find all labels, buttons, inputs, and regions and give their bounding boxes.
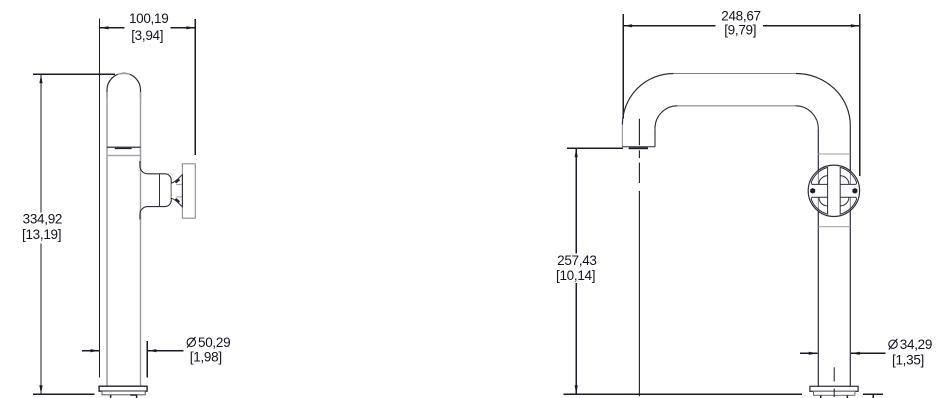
arrow dia34 right — [851, 352, 860, 355]
diameter symbol for 34,29 — [889, 340, 897, 348]
arch apex grey segment — [118, 73, 131, 75]
stem flare upper — [171, 175, 182, 184]
spout outer top — [674, 73, 797, 75]
svg-text:[10,14]: [10,14] — [556, 268, 595, 283]
spout inner top — [677, 105, 795, 107]
handwheel hole top-left — [811, 167, 827, 184]
arrow dia50 left — [91, 349, 100, 352]
handwheel hole top-right — [840, 167, 856, 184]
ext line left of 248,67 — [622, 14, 624, 118]
dim line 334,92 — [40, 74, 42, 394]
base flange tier 2 right view — [814, 391, 855, 395]
spout outlet dark opening — [115, 148, 132, 149]
handwheel outer circle — [808, 165, 859, 216]
arrow 100,19 left — [100, 26, 109, 29]
spout outer left bend — [622, 74, 673, 125]
column left edge seen through wheel holes — [817, 171, 819, 212]
column right edge seen through wheel holes — [849, 171, 851, 211]
faucet body left edge — [106, 92, 108, 386]
base flange tier 2 — [102, 391, 145, 395]
arrow dia34 left — [809, 352, 818, 355]
handwheel hub edges across center — [828, 184, 841, 197]
svg-text:50,29: 50,29 — [198, 335, 230, 350]
ext line bottom of 334,92 — [33, 393, 95, 395]
handwheel edge-on — [182, 164, 195, 218]
spout outlet line front — [107, 146, 141, 148]
spoke dash lower — [176, 199, 180, 202]
ext line right of dia 50,29 — [146, 341, 148, 378]
ext line top of 257,43 — [567, 147, 623, 149]
spout inner left bend — [655, 106, 677, 128]
column left edge — [817, 129, 819, 387]
handwheel fillet bottom-left — [819, 197, 828, 206]
base shank tier 3 — [111, 395, 138, 398]
svg-text:[9,79]: [9,79] — [724, 22, 756, 37]
base centerline dashes — [833, 367, 835, 397]
handwheel hole bottom-right — [840, 197, 856, 214]
handwheel left face dark segment — [181, 174, 183, 208]
base shank tier 3 right view — [821, 395, 848, 398]
dim line dia 50,29 — [82, 350, 184, 352]
nozzle outer left edge — [621, 125, 623, 147]
hub top line front — [176, 184, 182, 186]
svg-text:334,92: 334,92 — [23, 212, 63, 227]
svg-text:248,67: 248,67 — [721, 8, 761, 23]
arrow 248,67 right — [851, 24, 860, 27]
handwheel screw right — [852, 188, 857, 194]
arrow 334,92 top — [39, 74, 42, 83]
handwheel fillet top-right — [840, 176, 849, 185]
valve housing outline — [140, 161, 171, 220]
svg-text:[1,98]: [1,98] — [190, 349, 222, 364]
nozzle centerline dashes — [638, 119, 640, 397]
nozzle outlet dark opening — [629, 147, 648, 149]
ext line bottom of 257,43 — [564, 393, 803, 395]
svg-text:257,43: 257,43 — [557, 253, 597, 268]
dim line 248,67 — [623, 25, 860, 27]
svg-text:34,29: 34,29 — [900, 337, 932, 352]
ext line right of 248,67 — [859, 14, 861, 176]
base flange tier 1 — [99, 386, 147, 391]
column joint line lower — [818, 226, 850, 228]
handwheel fillet bottom-right — [840, 197, 849, 206]
column right edge — [849, 126, 851, 387]
handwheel hole bottom-left — [811, 197, 827, 214]
svg-text:[1,35]: [1,35] — [892, 353, 924, 368]
spoke dash upper — [176, 179, 180, 182]
bonnet right edge grey part — [170, 184, 172, 199]
handwheel screw left — [810, 188, 815, 194]
arrow dia50 right — [147, 349, 156, 352]
spout inner right bend — [796, 106, 819, 129]
arrow 257,43 bottom — [575, 385, 578, 394]
spout outer right bend — [796, 74, 850, 126]
ext line left of 100,19 / dia50,29 — [99, 19, 101, 378]
handwheel fillet top-left — [819, 176, 828, 185]
bottom right ext line — [863, 394, 883, 398]
base flange tier 1 right view — [810, 386, 858, 391]
nozzle inner right edge — [654, 128, 656, 147]
ext line right of 100,19 — [194, 19, 196, 155]
column joint line upper — [818, 153, 850, 155]
faucet body right edge — [140, 92, 142, 386]
arrow 248,67 left — [623, 24, 632, 27]
arrow 334,92 bottom — [39, 385, 42, 394]
svg-text:[13,19]: [13,19] — [22, 227, 61, 242]
dim line 100,19 — [100, 27, 196, 29]
diameter symbol for 50,29 — [187, 338, 195, 346]
arrow 257,43 top — [575, 148, 578, 157]
joint ring front — [107, 155, 141, 157]
svg-text:100,19: 100,19 — [129, 11, 169, 26]
arrow 100,19 right — [186, 26, 195, 29]
hub bottom line front — [176, 196, 182, 198]
ext line top of 334,92 — [33, 73, 115, 75]
stem flare lower — [171, 198, 182, 207]
faucet body top arch — [107, 73, 141, 98]
dim line dia 34,29 — [800, 352, 885, 354]
valve bonnet joint line — [159, 174, 161, 206]
dim line 257,43 — [575, 148, 577, 394]
nozzle outlet line — [622, 146, 655, 148]
svg-text:[3,94]: [3,94] — [131, 28, 163, 43]
